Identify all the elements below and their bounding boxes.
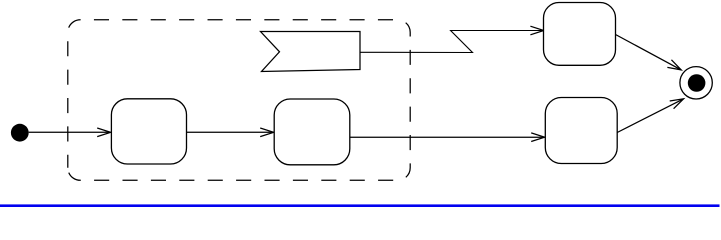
dashed activity region boundary (left edge) [67, 32, 69, 168]
wire: state S2 to state S4 (crosses dashed boundary) [350, 136, 545, 138]
state S4 (bottom right rounded rectangle) [545, 98, 617, 164]
final state (inner dot) [688, 74, 706, 92]
wire: state S4 to final state [617, 99, 683, 133]
send-signal shape (flag) [261, 32, 361, 72]
wire: state S1 to state S2 [187, 131, 274, 133]
zigzag wire: flag to state S3 [360, 31, 544, 53]
wire: state S3 to final state [616, 35, 682, 70]
dashed activity region boundary (top, right, bottom edges and corners) [68, 20, 410, 181]
state S2 (rounded rectangle) [274, 99, 350, 165]
blue horizontal rule at bottom [0, 204, 720, 207]
initial state (filled circle) [11, 124, 29, 142]
state S1 (rounded rectangle) [111, 99, 186, 164]
wire: initial state to state S1 [29, 131, 111, 133]
final state (outer ring) [680, 67, 712, 99]
state S3 (top right rounded rectangle) [544, 3, 616, 66]
